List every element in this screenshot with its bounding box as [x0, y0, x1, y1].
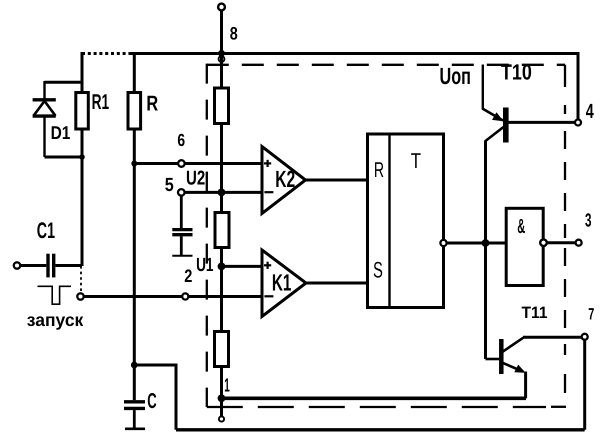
svg-text:6: 6	[177, 130, 185, 150]
wire T10 collector to T11 base	[484, 141, 487, 359]
wire U1 to K1 plus	[222, 265, 263, 268]
pin 8 terminal	[218, 4, 225, 11]
wire T10 base to pin 4	[509, 121, 576, 124]
svg-text:7: 7	[588, 306, 594, 324]
svg-text:T10: T10	[501, 59, 532, 84]
capacitor pin5 bypass	[172, 196, 192, 256]
wire pin1 rail	[222, 396, 527, 400]
svg-text:R: R	[374, 158, 384, 182]
wire chain mid1	[220, 124, 223, 214]
svg-text:&: &	[517, 215, 525, 238]
resistor divider bottom	[215, 332, 229, 367]
svg-text:1: 1	[224, 376, 230, 397]
wire R branch top	[133, 52, 136, 93]
transistor T11	[486, 338, 526, 374]
node pin1 junction	[218, 394, 226, 402]
node trigger open circle	[77, 293, 83, 299]
svg-text:4: 4	[586, 100, 594, 123]
wire T11 emitter riser	[524, 372, 527, 399]
wire запуск to K1 minus	[84, 295, 262, 298]
wire bottom rail	[176, 428, 585, 431]
IC boundary dashed top	[207, 64, 565, 66]
wire R1 branch bottom	[81, 129, 84, 266]
node R to pin6 junction	[131, 161, 137, 167]
logic gate and	[506, 208, 543, 285]
node divider tap U2	[218, 189, 226, 197]
wire pin 6 to K2 plus	[134, 162, 262, 165]
transistor T10	[482, 65, 506, 143]
pin 7 terminal	[582, 334, 588, 340]
node rail-chain junction	[218, 50, 225, 57]
wire R1 branch top	[81, 52, 84, 93]
wire D1 cathode lead	[43, 81, 45, 100]
svg-text:2: 2	[184, 266, 192, 286]
IC boundary dashed corner	[551, 406, 566, 408]
svg-text:T11: T11	[522, 304, 548, 322]
wire pin 5 to K2 minus	[185, 191, 262, 194]
wire D1 top	[45, 81, 84, 84]
wire chain mid2	[220, 248, 223, 333]
terminal C1 input	[14, 262, 20, 268]
wire C1 left	[20, 264, 46, 267]
svg-text:U2: U2	[186, 168, 205, 190]
wire C1 right	[55, 264, 82, 267]
node D1-R1 junction	[79, 154, 85, 160]
svg-text:запуск: запуск	[27, 310, 84, 330]
pulse symbol запуск	[38, 286, 72, 304]
svg-text:K1: K1	[272, 270, 292, 296]
label K1 minus	[264, 295, 273, 297]
IC boundary dashed right	[564, 65, 566, 393]
IC boundary dashed left	[206, 64, 208, 407]
svg-text:K2: K2	[275, 166, 295, 192]
svg-text:Uоп: Uоп	[440, 63, 471, 89]
wire D1 bottom	[45, 156, 83, 159]
svg-text:R: R	[146, 92, 158, 116]
svg-text:U1: U1	[196, 255, 214, 276]
resistor divider middle	[215, 213, 229, 248]
svg-text:S: S	[373, 257, 383, 282]
svg-text:R1: R1	[92, 90, 110, 114]
svg-text:C: C	[147, 389, 156, 413]
svg-text:D1: D1	[51, 122, 71, 143]
node and output circle	[540, 239, 547, 246]
node divider tap U1	[218, 263, 226, 271]
wire R branch bottom	[133, 129, 136, 365]
capacitor C	[124, 402, 145, 429]
wire C top stub	[133, 365, 136, 400]
pin 3 terminal	[576, 240, 582, 246]
node small circle below rail	[219, 56, 225, 62]
svg-text:3: 3	[585, 210, 592, 231]
wire top rail dotted segment	[82, 52, 131, 55]
svg-text:8: 8	[230, 23, 238, 43]
label K2 plus	[264, 160, 271, 167]
pin 4 terminal	[575, 120, 581, 126]
wire pin 7 to bottom rail	[583, 340, 586, 430]
wire K1 output to S	[306, 282, 367, 285]
wire T output	[447, 242, 506, 245]
IC boundary dashed bottom	[207, 406, 546, 408]
wire K2 output to R	[306, 179, 368, 182]
wire pin8 stub	[220, 10, 223, 52]
svg-text:T: T	[411, 149, 421, 173]
pin 5 terminal	[178, 189, 185, 196]
flip-flop T divider	[388, 134, 390, 308]
diode D1	[33, 100, 56, 116]
node R-C junction	[131, 362, 138, 369]
pin 6 terminal	[178, 160, 185, 167]
svg-text:C1: C1	[37, 218, 55, 243]
flip-flop T body	[368, 134, 444, 308]
wire RC node to bottom rail	[134, 365, 176, 430]
wire T11 collector to pin 7	[523, 336, 582, 339]
wire dotted link C1 to trigger	[80, 266, 82, 293]
node output junction	[482, 239, 490, 247]
wire chain bottom	[220, 367, 223, 399]
wire divider chain	[220, 54, 223, 89]
wire and output to pin 3	[547, 241, 576, 244]
resistor R	[128, 93, 141, 130]
wire pin1 stub	[220, 398, 223, 416]
resistor R1	[76, 93, 89, 130]
comparator K1	[262, 250, 306, 317]
capacitor C1	[48, 254, 54, 278]
wire D1 anode lead	[43, 116, 45, 157]
wire top rail solid	[129, 52, 578, 55]
resistor divider top	[215, 88, 229, 124]
svg-text:5: 5	[165, 175, 174, 196]
wire rail to pin 4	[577, 52, 580, 119]
label K2 minus	[264, 191, 273, 193]
pin 2 terminal	[182, 293, 188, 299]
comparator K2	[262, 147, 306, 214]
node T output circle	[440, 240, 446, 246]
label K1 plus	[264, 262, 271, 269]
pin 1 terminal	[219, 416, 224, 421]
